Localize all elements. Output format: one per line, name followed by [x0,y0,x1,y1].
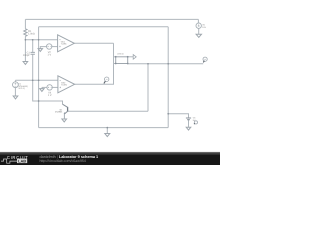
footer title text [40,155,99,163]
node flag F1 [203,57,207,61]
ground below V1 [13,96,18,99]
wire op-amp 1 output [74,42,113,44]
wire V4 positive lead to op-amp 2 non-inverting input [52,86,58,88]
svg-text:TL081: TL081 [61,84,68,87]
ground below Q1 [62,119,67,122]
voltage source V1 [13,82,19,88]
junction dots [25,39,169,129]
wire left segment below resistor [24,36,26,61]
label V3 [193,117,196,122]
capacitor C1 [31,52,35,54]
wire box left stubs [114,56,116,58]
wire V5 to ground [198,28,200,34]
wire battery to ground [188,120,190,128]
voltage source V4 [47,85,52,90]
probe tail F1 [203,61,204,63]
svg-text:TL081: TL081 [61,43,68,46]
svg-text:15V: 15V [202,26,206,29]
node flag F3 [133,55,136,60]
wire left top segment [24,19,26,28]
voltage source V5 [196,23,201,28]
label C1 [23,51,31,57]
ground at V2 [38,49,42,52]
ground bottom middle [105,134,110,137]
component labels [18,24,206,123]
wire top rail [25,18,198,20]
svg-text:http://circuitlab.com/c6aw954: http://circuitlab.com/c6aw954 [40,159,86,163]
ground at V4 [40,89,44,92]
label OA2 [61,81,68,86]
wire V2 negative lead to ground [40,47,46,49]
wire inner loop top [39,26,169,28]
wire ground stub bottom middle [106,128,108,134]
wire box to flag F3 [128,56,134,58]
wire V1 top stub [14,80,16,82]
op-amp OA2 [58,76,75,93]
probe at battery V3 [194,121,197,124]
ground below V5 [196,34,201,37]
label V1 [18,82,28,90]
label V2 [47,51,51,57]
wire base net horizontal [68,110,148,112]
probe tail F2 [104,81,106,84]
op-amp OA1 [58,35,75,52]
wire op-amp 1 output down to op-amp 2 output [75,43,114,84]
label V5 [202,24,206,30]
wire inner loop right vertical [167,27,169,128]
wire battery branch [168,114,188,118]
voltage source V2 [47,44,52,49]
svg-text:LTB 1k: LTB 1k [117,53,124,56]
svg-text:1 V: 1 V [47,54,51,57]
svg-text:2N3904: 2N3904 [55,111,63,114]
label Q1 [55,108,63,113]
wire base net vertical [147,64,149,112]
svg-text:1.0kΩ: 1.0kΩ [28,32,35,35]
ground below R1 [23,62,28,65]
wire output net [128,63,204,65]
wire V5 stub [197,19,199,23]
svg-text:100pF: 100pF [23,54,31,57]
label OA1 [61,40,68,45]
wire V2 positive lead to op-amp 1 non-inverting input [52,46,58,48]
wire source bus to op-amp 2 inverting input [15,79,58,81]
footer logo CIRCUITLAB [1,155,29,164]
wire capacitor C1 lower lead down and to transistor collector [33,54,63,104]
ground below battery V3 [186,127,191,130]
resistor R1 [24,29,27,37]
box component [116,57,128,64]
svg-text:1 V: 1 V [48,94,52,97]
wire capacitor C1 upper lead [32,40,34,52]
transistor Q1 [63,104,68,119]
wire inner loop left vertical [38,27,40,128]
battery V3 [186,118,191,120]
wire inner loop bottom [39,127,169,129]
wire V4 negative lead to ground [42,86,47,88]
label V4 [48,91,52,97]
node flag F2 [105,77,109,81]
wire V1 bottom stub [14,88,16,96]
svg-text:LAB: LAB [18,158,26,163]
wire node A to op-amp 1 inverting input [25,39,57,41]
svg-text:1k 0 1): 1k 0 1) [18,87,25,90]
